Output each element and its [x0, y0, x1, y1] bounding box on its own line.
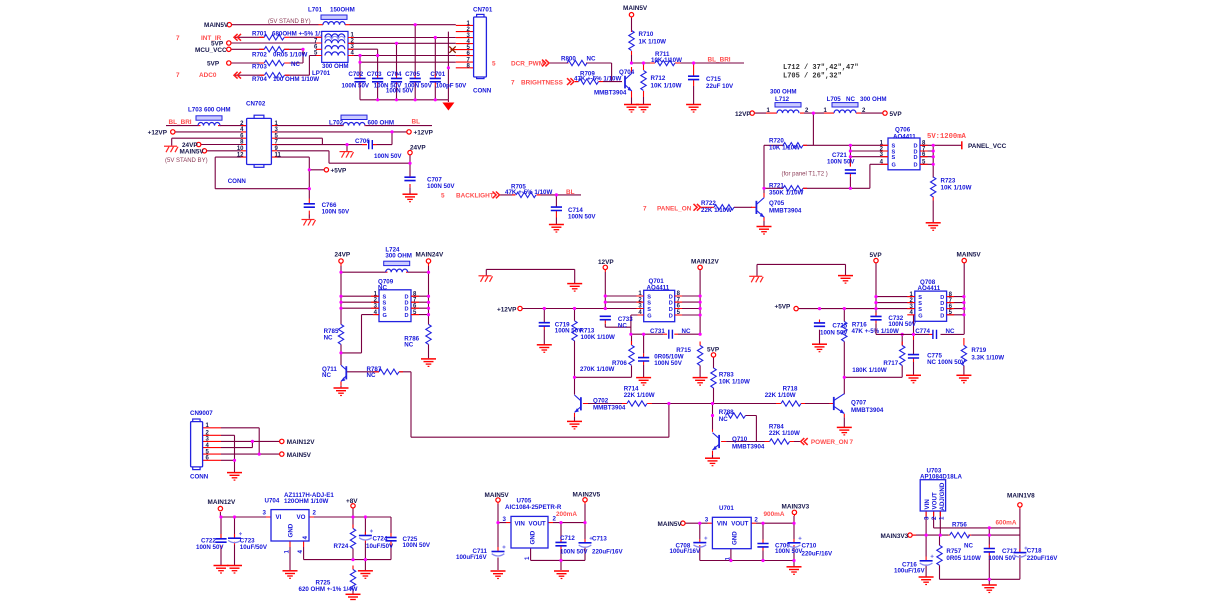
svg-text:ADC0: ADC0	[199, 72, 217, 79]
svg-text:S: S	[892, 155, 896, 161]
svg-text:C774: C774	[915, 328, 930, 335]
capacitor C717	[984, 549, 995, 552]
capacitor C702	[354, 78, 365, 81]
junction dots U704	[219, 515, 367, 561]
svg-text:NC: NC	[322, 372, 331, 379]
resistor R783	[711, 368, 716, 388]
capacitor C775	[908, 355, 919, 358]
svg-text:220uF/16V: 220uF/16V	[802, 550, 833, 557]
capacitor C774	[933, 330, 937, 339]
resistor R703	[264, 60, 284, 65]
svg-text:5VP: 5VP	[707, 346, 720, 353]
red pin stubs mosfets and LP701	[316, 37, 954, 315]
ground arrow CN701	[447, 100, 449, 102]
node 5VP terminal right	[883, 111, 887, 115]
capacitor C712	[555, 542, 566, 545]
resistor R785	[338, 324, 343, 344]
svg-text:R724: R724	[334, 543, 349, 550]
junction dots cluster2	[630, 61, 695, 64]
svg-text:R723: R723	[941, 177, 956, 184]
resistor R722	[714, 205, 734, 210]
resistor R702	[264, 47, 284, 52]
svg-text:U701: U701	[719, 505, 734, 512]
ground R786	[421, 359, 436, 367]
resistor R704	[265, 73, 285, 78]
capacitor C733	[600, 316, 611, 319]
svg-text:+12VP: +12VP	[414, 130, 434, 137]
svg-text:100N 50V: 100N 50V	[775, 548, 803, 555]
svg-text:7: 7	[643, 205, 647, 212]
svg-text:150OHM: 150OHM	[330, 7, 355, 14]
capacitor C720	[638, 358, 649, 361]
svg-text:AIC1084-25PETR-R: AIC1084-25PETR-R	[505, 504, 562, 511]
junction dots cluster1	[301, 23, 450, 101]
svg-text:MMBT3904: MMBT3904	[769, 208, 802, 215]
svg-text:10uF/50V: 10uF/50V	[240, 544, 268, 551]
resistor R757	[937, 545, 942, 565]
svg-text:350K 1/10W: 350K 1/10W	[769, 190, 804, 197]
junction dots cluster3	[762, 112, 934, 190]
svg-text:C701: C701	[430, 71, 445, 78]
ground Q704	[624, 105, 639, 113]
svg-text:100N 50V: 100N 50V	[820, 330, 848, 337]
svg-text:10uF/50V: 10uF/50V	[366, 543, 394, 550]
resistor R701	[264, 35, 284, 40]
svg-text:C710: C710	[802, 543, 817, 550]
LP701 pin numbers	[314, 33, 355, 57]
svg-text:NC: NC	[682, 328, 691, 335]
svg-text:CONN: CONN	[228, 178, 247, 185]
resistor R714	[627, 401, 647, 406]
svg-text:600 OHM: 600 OHM	[368, 120, 394, 127]
node MAIN2V5 terminal	[583, 498, 587, 502]
capacitor C709	[757, 544, 768, 547]
svg-text:U704: U704	[265, 498, 280, 505]
svg-text:R712: R712	[651, 75, 666, 82]
red stubs U701	[685, 515, 794, 551]
svg-text:D: D	[669, 295, 673, 301]
svg-text:GND: GND	[288, 523, 295, 537]
svg-text:300 OHM: 300 OHM	[860, 96, 886, 103]
svg-text:DCR_PWM: DCR_PWM	[511, 61, 544, 68]
Q708 pin numbers	[909, 292, 952, 316]
svg-text:MAIN3V3: MAIN3V3	[881, 533, 909, 540]
junction dots cluster8	[874, 295, 965, 336]
Q701 pin numbers	[638, 291, 680, 316]
resistor R719	[961, 346, 966, 366]
transistor Q707	[834, 394, 884, 414]
svg-text:7: 7	[176, 35, 180, 42]
resistor R710	[629, 31, 634, 51]
svg-text:R703: R703	[252, 64, 267, 71]
svg-text:MAIN5V: MAIN5V	[623, 5, 648, 12]
svg-text:100K 1/10W: 100K 1/10W	[581, 334, 616, 341]
red pin stubs CN701	[451, 25, 474, 67]
node 12VP terminal mid	[603, 265, 607, 269]
svg-text:100N 50V: 100N 50V	[403, 542, 431, 549]
svg-text:10K 1/10W: 10K 1/10W	[941, 185, 972, 192]
node 24VP terminal	[339, 259, 343, 263]
svg-text:10K 1/10W: 10K 1/10W	[769, 145, 800, 152]
svg-text:ADJ/GND: ADJ/GND	[939, 482, 946, 510]
node +5VP terminal mid	[794, 306, 798, 310]
svg-text:+12VP: +12VP	[497, 306, 517, 313]
svg-text:C717: C717	[1002, 548, 1017, 555]
CN702 pin numbers	[237, 121, 282, 159]
svg-text:R719: R719	[971, 347, 986, 354]
svg-text:300 OHM: 300 OHM	[770, 88, 796, 95]
svg-text:100N 50V: 100N 50V	[568, 214, 596, 221]
ground C715	[686, 105, 701, 113]
ground R715	[693, 378, 708, 386]
resistor R705	[516, 192, 536, 197]
node MAIN5V left terminal	[202, 149, 206, 153]
svg-text:C705: C705	[405, 71, 420, 78]
connector CN701	[473, 6, 493, 94]
red stubs cluster6	[341, 263, 429, 385]
svg-text:+5VP: +5VP	[775, 303, 792, 310]
capacitor C725b	[814, 323, 825, 326]
mosfet Q701	[644, 278, 675, 321]
svg-text:NC 100N 50V: NC 100N 50V	[927, 359, 966, 366]
mosfet Q706	[888, 127, 920, 170]
node 5VP terminal Q708	[874, 258, 878, 262]
svg-text:1: 1	[284, 550, 291, 554]
svg-text:100N 50V: 100N 50V	[989, 555, 1017, 562]
ground Q705	[757, 227, 772, 235]
red stubs U705	[498, 500, 585, 551]
svg-text:VOUT: VOUT	[731, 521, 748, 528]
ground pair left slash	[486, 269, 574, 283]
svg-text:S: S	[918, 307, 922, 313]
svg-text:VIN: VIN	[515, 520, 526, 527]
ground slash C766	[302, 220, 316, 226]
svg-text:D: D	[940, 307, 944, 313]
capacitor C731	[669, 330, 673, 339]
svg-text:R715: R715	[676, 347, 691, 354]
node +12VP right terminal	[407, 130, 411, 134]
svg-text:MMBT3904: MMBT3904	[593, 405, 626, 412]
svg-text:G: G	[918, 313, 922, 319]
svg-text:L705 / 26",32": L705 / 26",32"	[783, 73, 842, 81]
regulator U705	[503, 498, 562, 561]
capacitor C706	[369, 140, 373, 149]
ground C723	[227, 566, 242, 574]
svg-text:PANEL_ON: PANEL_ON	[657, 205, 692, 212]
ground Q711	[334, 388, 349, 396]
wire net 12VP to 5VP row	[755, 113, 883, 145]
svg-text:620 OHM +-1% 1/4W: 620 OHM +-1% 1/4W	[299, 586, 358, 593]
wire net U703	[912, 509, 1020, 585]
resistor R713	[572, 321, 577, 341]
svg-text:MAIN12V: MAIN12V	[208, 499, 236, 506]
node MAIN12V terminal	[698, 265, 702, 269]
node MAIN12V terminal U704	[218, 506, 222, 510]
ground C719	[537, 345, 552, 353]
resistor R711	[655, 60, 675, 65]
svg-text:MMBT3904: MMBT3904	[594, 89, 627, 96]
svg-text:100uF/16V: 100uF/16V	[894, 568, 925, 575]
wire net MAIN5V U701	[685, 516, 794, 567]
resistor R725	[350, 570, 355, 590]
inductor L702	[341, 115, 367, 119]
svg-text:R717: R717	[883, 360, 898, 367]
svg-text:R800: R800	[561, 56, 576, 63]
svg-text:5V:1200mA: 5V:1200mA	[927, 133, 967, 141]
ground U704 pin1	[283, 571, 298, 579]
svg-text:220uF/16V: 220uF/16V	[592, 549, 623, 556]
svg-text:Q704: Q704	[619, 69, 635, 76]
junction dot BL	[555, 193, 558, 196]
resistor R724	[350, 529, 355, 549]
transistor Q710	[713, 433, 765, 451]
wire net CN9007	[221, 428, 280, 473]
svg-text:AO4411: AO4411	[893, 133, 916, 140]
wire rows LP701 to CN701	[231, 37, 456, 75]
junction dots cluster7	[543, 294, 904, 417]
regulator U701	[705, 505, 759, 560]
node MAIN5V terminal Q708	[962, 258, 966, 262]
capacitor C723	[228, 532, 242, 543]
inductor L703	[196, 116, 222, 120]
ground C714	[549, 225, 564, 233]
svg-text:12VP: 12VP	[598, 259, 614, 266]
svg-text:900mA: 900mA	[764, 511, 785, 518]
svg-text:MMBT3904: MMBT3904	[851, 407, 884, 414]
ground C725b	[812, 344, 827, 352]
capacitor C701	[430, 78, 441, 81]
svg-text:100uF/16V: 100uF/16V	[670, 548, 701, 555]
svg-text:12: 12	[237, 152, 244, 158]
wires CN702 right rows	[277, 126, 432, 219]
wire net Q702 base row	[575, 309, 903, 458]
capacitor C725r	[385, 537, 396, 540]
red stubs cluster5	[512, 195, 556, 218]
regulator U704	[263, 492, 335, 554]
node MAIN24V terminal	[426, 259, 430, 263]
svg-text:1: 1	[938, 516, 945, 520]
ground C711	[491, 571, 506, 579]
svg-text:NC: NC	[324, 334, 333, 341]
svg-text:MAIN24V: MAIN24V	[416, 252, 444, 259]
svg-text:L712: L712	[775, 96, 790, 103]
svg-text:5VP: 5VP	[207, 61, 220, 68]
svg-text:Q710: Q710	[732, 436, 748, 443]
capacitor C705	[410, 78, 421, 81]
capacitor C713	[579, 537, 593, 548]
filter LP701	[312, 31, 348, 77]
resistor R756	[950, 532, 970, 537]
resistor R709	[579, 79, 599, 84]
svg-text:L705: L705	[827, 96, 842, 103]
svg-text:CONN: CONN	[190, 474, 209, 481]
svg-text:MAIN5V: MAIN5V	[287, 452, 312, 459]
red stubs components cluster1	[259, 25, 435, 86]
svg-text:Q705: Q705	[769, 200, 785, 207]
Q706 pin numbers	[880, 141, 926, 166]
svg-text:24VP: 24VP	[410, 144, 426, 151]
capacitor C721	[845, 170, 856, 173]
wire net 24VP / Q709 cluster	[341, 266, 669, 437]
node +12VP terminal mid	[518, 306, 522, 310]
CN9007 pin numbers	[206, 423, 210, 462]
svg-text:BL_BRI: BL_BRI	[708, 56, 731, 63]
red pin stubs CN702	[198, 126, 410, 215]
capacitor C704	[391, 78, 402, 81]
wire net 12VP Q701 bus	[522, 270, 700, 395]
svg-text:11: 11	[275, 152, 282, 158]
wire net MAIN5V Q704 collector and BL_BRI row	[632, 18, 745, 104]
capacitor C722	[215, 539, 226, 542]
svg-text:MAIN12V: MAIN12V	[691, 258, 719, 265]
svg-text:3.3K 1/10W: 3.3K 1/10W	[971, 355, 1004, 362]
svg-text:100N 50V: 100N 50V	[888, 321, 916, 328]
svg-text:CN9007: CN9007	[190, 410, 213, 417]
svg-text:100N 50V: 100N 50V	[404, 82, 432, 89]
ground R719	[956, 375, 971, 383]
resistor R723	[931, 177, 936, 197]
svg-text:C718: C718	[1027, 547, 1042, 554]
ground R712	[636, 105, 651, 113]
svg-text:3: 3	[263, 509, 267, 516]
wires CN702 left rows	[172, 132, 310, 199]
node MAIN5V terminal	[227, 23, 231, 27]
svg-text:BL: BL	[412, 119, 421, 126]
transistor Q702	[575, 395, 626, 412]
svg-text:2: 2	[754, 517, 758, 524]
svg-text:12VP: 12VP	[735, 111, 751, 118]
no-connect X pin5	[449, 46, 455, 52]
svg-text:C702: C702	[348, 71, 363, 78]
svg-text:(5V STAND BY): (5V STAND BY)	[165, 158, 208, 164]
connector CN702	[228, 100, 272, 184]
svg-text:0R05 1/10W: 0R05 1/10W	[273, 52, 308, 59]
wire net Q706 gate network	[734, 145, 962, 226]
node MAIN5V terminal U701	[681, 521, 685, 525]
ground R723	[926, 223, 941, 231]
svg-text:NC: NC	[964, 542, 973, 549]
svg-text:R721: R721	[769, 182, 784, 189]
svg-text:7: 7	[176, 72, 180, 79]
resistor R706	[629, 345, 634, 365]
node 12VP terminal	[750, 111, 754, 115]
mosfet Q709	[378, 279, 411, 322]
connector CN9007	[190, 410, 213, 481]
red pin stubs CN9007	[203, 428, 221, 461]
svg-text:MAIN3V3: MAIN3V3	[782, 504, 810, 511]
svg-text:0R05 1/10W: 0R05 1/10W	[946, 555, 981, 562]
svg-text:4: 4	[297, 550, 304, 554]
svg-text:VO: VO	[297, 514, 306, 521]
svg-text:R710: R710	[639, 31, 654, 38]
resistor R721	[783, 186, 803, 191]
svg-text:R702: R702	[252, 52, 267, 59]
wire net BACKLIGHT / BL	[500, 195, 581, 224]
svg-text:Q707: Q707	[851, 400, 867, 407]
red stubs cluster8	[876, 313, 964, 366]
ground pair left bars	[567, 284, 582, 292]
svg-text:(5V STAND BY): (5V STAND BY)	[268, 19, 311, 25]
node +5VP terminal	[324, 168, 328, 172]
svg-text:R783: R783	[719, 371, 734, 378]
node PANEL_VCC	[961, 141, 963, 149]
ground Q710	[705, 458, 720, 466]
svg-text:S: S	[647, 301, 651, 307]
node MAIN12V terminal CN9007	[280, 439, 284, 443]
svg-text:100N 50V: 100N 50V	[322, 209, 350, 216]
node 24VP right terminal	[408, 150, 412, 154]
transistor Q705	[756, 198, 801, 218]
svg-text:D: D	[940, 313, 944, 319]
svg-text:BRIGHTNESS: BRIGHTNESS	[521, 80, 564, 87]
node 5VP terminal mid	[711, 353, 715, 357]
svg-text:S: S	[647, 295, 651, 301]
node +12VP left terminal	[171, 130, 175, 134]
svg-text:300 OHM: 300 OHM	[385, 253, 411, 260]
svg-text:NC: NC	[618, 322, 627, 329]
ground C716	[919, 577, 934, 585]
svg-text:L712 / 37",42",47": L712 / 37",42",47"	[783, 64, 859, 72]
svg-text:NC: NC	[404, 342, 413, 349]
node MAIN5V terminal CN9007	[280, 452, 284, 456]
svg-text:NC: NC	[846, 96, 855, 103]
junction dots CN9007	[233, 440, 261, 462]
capacitor C711	[492, 546, 506, 557]
capacitor C703	[372, 78, 383, 81]
svg-text:+12VP: +12VP	[148, 130, 168, 137]
svg-text:GND: GND	[530, 530, 537, 544]
capacitor C732	[870, 316, 881, 319]
svg-text:MCU_VCC: MCU_VCC	[195, 47, 227, 54]
regulator U703	[920, 468, 962, 520]
svg-text:BL: BL	[566, 189, 575, 196]
svg-text:100uF/16V: 100uF/16V	[456, 554, 487, 561]
svg-text:600mA: 600mA	[996, 519, 1017, 526]
node 5VP2	[227, 61, 231, 65]
ground C722	[214, 566, 229, 574]
ground slash row6	[164, 146, 178, 152]
resistor R712	[641, 71, 646, 91]
red stubs cluster2	[567, 15, 694, 98]
svg-text:C703: C703	[367, 71, 382, 78]
node MAIN3V3 terminal U703	[908, 533, 912, 537]
wire net 5VP Q708 bus	[876, 263, 964, 375]
capacitor C714	[551, 207, 562, 210]
svg-text:VIN: VIN	[717, 521, 728, 528]
node MCU_VCC	[227, 47, 231, 51]
svg-text:G: G	[383, 313, 387, 319]
svg-text:S: S	[647, 307, 651, 313]
red stubs cluster7	[522, 270, 902, 455]
svg-text:POWER_ON: POWER_ON	[811, 439, 849, 446]
svg-text:NC: NC	[587, 56, 596, 63]
junction dots cluster4	[308, 130, 412, 190]
ground CN9007	[227, 473, 242, 481]
svg-text:180K 1/10W: 180K 1/10W	[852, 367, 887, 374]
svg-text:10: 10	[237, 146, 244, 152]
svg-text:R701: R701	[252, 31, 267, 38]
svg-text:VOUT: VOUT	[931, 492, 938, 509]
resistor R716	[842, 322, 847, 342]
node +8V terminal	[351, 504, 355, 508]
svg-text:BACKLIGHT: BACKLIGHT	[456, 193, 494, 200]
capacitor C715	[688, 76, 699, 79]
ground C707	[403, 194, 418, 202]
svg-text:47K +-5% 1/10W: 47K +-5% 1/10W	[505, 189, 552, 196]
ground C720	[636, 378, 651, 386]
svg-text:L702: L702	[329, 119, 344, 126]
svg-text:NC: NC	[291, 61, 300, 68]
